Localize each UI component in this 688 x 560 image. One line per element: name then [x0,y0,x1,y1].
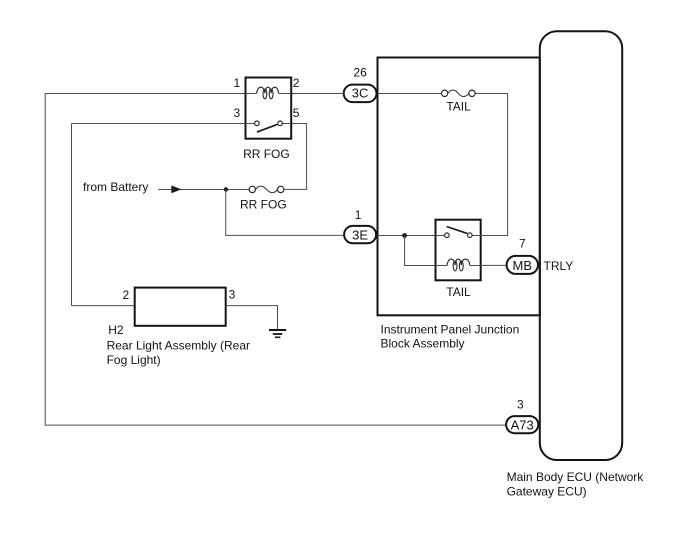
connector A73 [506,416,538,433]
node: 3E junction dot [402,233,407,238]
svg-text:3: 3 [234,106,241,120]
svg-text:TAIL: TAIL [446,285,471,299]
wire: fuse to pin5 riser [284,188,307,190]
label: TRLY [544,259,574,273]
svg-text:Instrument Panel Junction: Instrument Panel Junction [381,323,520,337]
svg-text:Main Body ECU (Network: Main Body ECU (Network [507,470,645,484]
svg-text:H2: H2 [108,323,124,337]
svg-text:A73: A73 [511,418,534,433]
pin 3 label (H2) [229,288,236,302]
pin 2 label [293,76,300,90]
pin 1 label [234,76,241,90]
coil TAIL [447,259,470,271]
coil RR FOG [257,87,279,99]
pin 3 label (A73) [517,398,524,412]
label: Instrument Panel Junction Block Assembly [381,323,520,351]
svg-text:from Battery: from Battery [83,180,148,194]
wire: from Battery feed [158,189,249,191]
component H2: Rear Light Assembly box [135,288,226,326]
svg-text:2: 2 [123,288,130,302]
label: fuse TAIL [446,100,471,114]
svg-text:TRLY: TRLY [544,259,574,273]
ground [269,330,286,337]
pin 3 label [234,106,241,120]
svg-text:3: 3 [517,398,524,412]
wire: coil stubs RR FOG [246,93,292,95]
wire: pin3 run from inner left vertical [72,123,246,125]
svg-text:MB: MB [513,258,533,273]
svg-text:Block Assembly: Block Assembly [381,337,465,351]
svg-text:RR FOG: RR FOG [240,198,287,212]
wire: TAIL switch to riser [481,235,508,237]
label: from Battery [83,180,148,194]
svg-text:1: 1 [355,208,362,222]
ECU body: Main Body ECU [540,31,622,460]
node: battery junction dot [224,187,228,191]
svg-text:TAIL: TAIL [446,100,471,114]
svg-text:5: 5 [293,106,300,120]
pin 7 label [519,236,526,250]
wire: junction down to TAIL coil [405,236,436,266]
wire: fuse TAIL to riser [475,94,507,236]
pin 5 label [293,106,300,120]
svg-text:3: 3 [229,288,236,302]
label: relay TAIL [446,285,471,299]
pin 2 label (H2) [123,288,130,302]
svg-text:Fog Light): Fog Light) [107,353,161,367]
junction block: Instrument Panel Junction Block Assembly [378,58,540,316]
wire: pin1 feed, left column top [45,93,246,95]
svg-text:7: 7 [519,236,526,250]
fuse TAIL [441,90,475,96]
wire: H2 pin3 to ground [226,306,278,329]
wire: pin5 down to fuse [291,124,307,190]
wire: pin2 to connector 3C [291,93,344,95]
pin 1 label (3E) [355,208,362,222]
relay U-RRFOG box [246,78,292,139]
wire: outer left vertical [44,94,46,426]
label: Rear Light Assembly (Rear Fog Light) [107,339,250,367]
label: Main Body ECU (Network Gateway ECU) [507,470,645,498]
relay TAIL box [436,220,481,281]
svg-text:2: 2 [293,76,300,90]
wire: 3C to fuse TAIL [377,93,441,95]
connector MB [507,256,538,274]
label: relay RR FOG [243,147,290,161]
wire: junction down to 3E row [226,189,345,235]
wire: inner left vertical [71,124,73,306]
arrow: battery flow direction [171,185,181,193]
svg-text:26: 26 [353,66,367,80]
svg-text:RR FOG: RR FOG [243,147,290,161]
wire: TAIL coil to MB [481,264,507,266]
label: fuse RR FOG [240,198,287,212]
wire: coil stubs TAIL [436,265,481,267]
wire: bottom run to A73 [45,424,507,426]
svg-text:Rear Light Assembly (Rear: Rear Light Assembly (Rear [107,339,250,353]
switch RR FOG [246,121,292,132]
pin 26 label [353,66,367,80]
svg-text:3C: 3C [352,85,369,100]
wire: H2 pin2 run [72,305,135,307]
fuse RR FOG [249,186,284,192]
svg-text:3E: 3E [352,227,368,242]
connector 3C [344,85,377,103]
wire: 3E to TAIL relay switch [377,235,435,237]
label: H2 [108,323,124,337]
svg-text:Gateway ECU): Gateway ECU) [507,484,587,498]
switch TAIL [436,227,481,238]
svg-text:1: 1 [234,76,241,90]
connector 3E [344,226,376,243]
